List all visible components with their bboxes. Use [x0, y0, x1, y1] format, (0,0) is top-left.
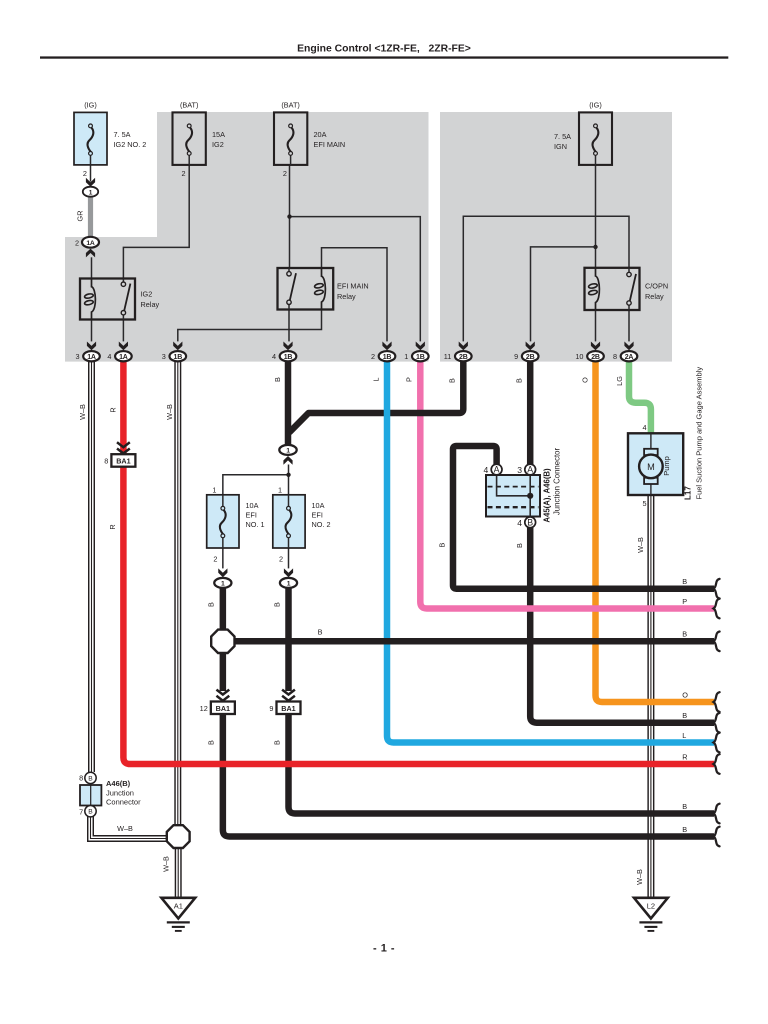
svg-text:O: O	[682, 690, 688, 699]
svg-text:(BAT): (BAT)	[281, 101, 300, 110]
wire W-B octagon to ground A1	[175, 847, 182, 897]
svg-text:2: 2	[182, 169, 186, 178]
bus exit B at y=836.5	[714, 827, 720, 847]
fuse 15A IG2	[173, 112, 206, 164]
svg-text:BA1: BA1	[216, 704, 230, 713]
wire O from 10 2B to right exit	[596, 361, 715, 702]
svg-text:W–B: W–B	[78, 404, 87, 420]
svg-text:(BAT): (BAT)	[180, 101, 199, 110]
terminal 4 1B with arrow	[272, 342, 296, 362]
fuse 20A EFI MAIN	[274, 112, 307, 164]
svg-text:B: B	[88, 775, 93, 782]
svg-text:W–B: W–B	[635, 869, 644, 885]
svg-text:W–B: W–B	[117, 824, 133, 833]
svg-text:5: 5	[643, 499, 647, 508]
svg-text:B: B	[682, 711, 687, 720]
connector 1 below EFI NO.2	[280, 578, 297, 588]
svg-text:Connector: Connector	[106, 798, 141, 807]
svg-text:1: 1	[278, 486, 282, 495]
wire fuse IG2 NO.2 to connector 1	[90, 165, 92, 182]
wire IG2 relay switch to terminal 4 1A	[122, 320, 124, 342]
svg-text:IG2: IG2	[141, 290, 153, 299]
svg-text:B: B	[682, 630, 687, 639]
wire C/OPN relay coil to terminal 10 2B	[595, 310, 597, 341]
svg-text:B: B	[438, 542, 447, 547]
bus exit R at y=764	[714, 754, 720, 774]
svg-text:4: 4	[643, 423, 647, 432]
svg-text:C/OPN: C/OPN	[645, 282, 668, 291]
connector 1 ellipse	[83, 187, 98, 197]
svg-text:1: 1	[404, 352, 408, 361]
svg-text:GR: GR	[76, 211, 85, 222]
svg-text:BA1: BA1	[281, 704, 295, 713]
wire C/OPN switch feed to terminal 11 2B	[463, 216, 629, 341]
wire W-B from 3 1A	[88, 361, 95, 772]
svg-text:2: 2	[75, 238, 79, 247]
svg-text:B: B	[515, 543, 524, 548]
terminal 8 2A with arrow	[613, 342, 637, 362]
arrow out of 1A	[86, 249, 95, 258]
svg-text:R: R	[108, 524, 117, 529]
svg-text:1A: 1A	[87, 354, 96, 361]
svg-text:IG2: IG2	[212, 140, 224, 149]
terminal 4 1A with arrow	[107, 342, 131, 362]
wire W-B pump to ground L2	[647, 495, 654, 898]
svg-text:7: 7	[79, 807, 83, 816]
wire fuse IGN to C/OPN relay coil	[595, 165, 597, 268]
wire 1A to IG2 relay coil	[91, 257, 93, 278]
terminal 3 1A with arrow	[75, 342, 99, 362]
wire GR fuse to 1A connector	[88, 196, 93, 238]
A46 pin 8 B	[85, 772, 96, 783]
svg-text:20A: 20A	[314, 130, 327, 139]
wire node to terminal 9 2B	[531, 247, 596, 342]
svg-text:15A: 15A	[212, 130, 225, 139]
svg-text:EFI MAIN: EFI MAIN	[337, 282, 369, 291]
svg-text:Fuel Suction Pump and Gage Ass: Fuel Suction Pump and Gage Assembly	[695, 367, 704, 500]
svg-text:4: 4	[107, 352, 111, 361]
svg-text:Junction Connector: Junction Connector	[553, 448, 562, 516]
svg-text:A1: A1	[174, 901, 183, 910]
svg-text:Pump: Pump	[662, 456, 671, 476]
node on EFI MAIN feed	[287, 214, 291, 218]
svg-text:8: 8	[104, 457, 108, 466]
svg-text:A45(A), A46(B): A45(A), A46(B)	[543, 468, 552, 523]
wire EFI relay switch to terminal 4 1B	[288, 310, 290, 342]
wire W-B from 3 1B	[174, 361, 181, 826]
svg-text:A: A	[527, 465, 533, 475]
gray block left (ECU area)	[65, 112, 429, 362]
svg-text:9: 9	[269, 704, 273, 713]
bus exit O at y=702	[714, 692, 720, 712]
junction connector A45(A) A46(B) box	[486, 475, 540, 517]
svg-text:W–B: W–B	[162, 856, 171, 872]
header rule	[40, 56, 728, 58]
svg-text:- 1 -: - 1 -	[373, 943, 395, 955]
svg-text:IG2 NO. 2: IG2 NO. 2	[114, 140, 147, 149]
wire junction 4A to node	[497, 475, 531, 496]
svg-text:L: L	[682, 731, 686, 740]
wire B from junction 4B to right exit	[530, 528, 714, 723]
arrow out of connector 1 on 4 1B wire	[283, 456, 292, 465]
junction pin 3 A	[525, 464, 536, 475]
svg-text:A46(B): A46(B)	[106, 779, 131, 788]
terminal 2 1B with arrow	[371, 342, 395, 362]
svg-text:Relay: Relay	[645, 292, 664, 301]
connector 8 BA1	[117, 442, 130, 447]
svg-text:8: 8	[79, 774, 83, 783]
svg-text:B: B	[207, 740, 216, 745]
svg-text:1B: 1B	[174, 354, 183, 361]
svg-text:7. 5A: 7. 5A	[114, 130, 131, 139]
svg-text:M: M	[647, 462, 655, 472]
svg-text:R: R	[109, 407, 118, 412]
svg-text:7. 5A: 7. 5A	[554, 132, 571, 141]
svg-text:B: B	[272, 602, 281, 607]
svg-text:10A: 10A	[246, 501, 259, 510]
wire B octagon bus to right exit	[234, 638, 715, 645]
svg-text:4: 4	[517, 518, 522, 528]
bus exit B at y=813.5	[714, 804, 720, 824]
fuse 7.5A IG2 NO.2	[74, 112, 107, 164]
motor M symbol	[644, 449, 658, 455]
svg-text:4: 4	[272, 352, 276, 361]
terminal 10 2B with arrow	[575, 342, 603, 362]
svg-text:LG: LG	[615, 376, 624, 386]
junction pin 4 A	[491, 464, 502, 475]
connector 1 on 4 1B wire	[279, 445, 296, 455]
svg-text:1B: 1B	[284, 354, 293, 361]
svg-text:B: B	[273, 377, 282, 382]
svg-text:R: R	[682, 752, 687, 761]
svg-text:EFI: EFI	[246, 511, 257, 520]
svg-text:2A: 2A	[625, 354, 634, 361]
svg-text:BA1: BA1	[116, 457, 130, 466]
arrow into connector 1 below EFI NO.2	[284, 568, 293, 577]
svg-text:P: P	[405, 377, 414, 382]
wire B from EFI NO.2 fuse to BA1 and right exit	[289, 589, 715, 814]
wire C/OPN relay switch to terminal 8 2A	[628, 310, 630, 341]
gray block right	[440, 112, 672, 362]
dashed bus line lower	[488, 506, 539, 508]
terminal 9 2B with arrow	[514, 342, 538, 362]
wire R from 4 1A to right exit	[123, 361, 714, 764]
wire P from 1 1B to right exit	[420, 361, 714, 609]
svg-text:B: B	[515, 378, 524, 383]
relay EFI MAIN coil	[322, 268, 326, 310]
relay IG2 switch	[122, 279, 124, 283]
wire B from 9 2B to junction 3A	[527, 361, 534, 464]
node in junction connector	[527, 493, 533, 499]
svg-text:IGN: IGN	[554, 142, 567, 151]
junction pin 4 B	[525, 517, 536, 528]
wire from connector 1 to EFI fuses node	[223, 465, 289, 495]
wire IG2 relay coil to terminal 3 1A	[91, 320, 93, 342]
wire B link 4 1B to 11 2B	[289, 361, 463, 433]
A46 pin 7 B	[85, 806, 96, 817]
bus exit P at y=608.5	[714, 599, 720, 619]
svg-text:L: L	[372, 377, 381, 381]
wire through junction 3A-4B	[529, 475, 531, 517]
svg-text:1: 1	[221, 581, 225, 588]
connector 1 below EFI NO.1	[214, 578, 231, 588]
svg-text:EFI MAIN: EFI MAIN	[314, 140, 346, 149]
svg-text:B: B	[88, 809, 93, 816]
ground A1	[161, 898, 195, 919]
svg-text:8: 8	[613, 352, 617, 361]
svg-text:B: B	[682, 802, 687, 811]
wire LG from 8 2A to pump	[629, 361, 651, 433]
svg-text:1A: 1A	[86, 240, 95, 247]
wire EFI NO.2 fuse out	[288, 548, 290, 568]
terminal 11 2B with arrow	[444, 342, 472, 362]
svg-text:NO. 2: NO. 2	[312, 520, 331, 529]
svg-text:B: B	[207, 602, 216, 607]
svg-text:1: 1	[212, 486, 216, 495]
svg-text:9: 9	[514, 352, 518, 361]
svg-text:2: 2	[283, 169, 287, 178]
svg-text:W–B: W–B	[165, 404, 174, 420]
terminal 3 1B with arrow	[162, 342, 186, 362]
svg-text:1B: 1B	[416, 354, 425, 361]
svg-text:Junction: Junction	[106, 789, 134, 798]
relay IG2 coil	[92, 279, 96, 320]
svg-text:2B: 2B	[526, 354, 535, 361]
svg-text:B: B	[682, 577, 687, 586]
relay C/OPN coil	[596, 268, 600, 310]
svg-text:3: 3	[162, 352, 166, 361]
bus exit L at y=742.5	[714, 733, 720, 753]
svg-text:EFI: EFI	[312, 511, 323, 520]
dashed bus line upper	[488, 486, 539, 488]
svg-text:1A: 1A	[119, 354, 128, 361]
relay EFI MAIN switch	[288, 268, 290, 272]
svg-text:B: B	[527, 518, 533, 528]
svg-text:11: 11	[444, 352, 452, 361]
wire node to terminal 1 1B	[290, 217, 421, 342]
svg-text:10: 10	[575, 352, 583, 361]
svg-text:12: 12	[200, 704, 208, 713]
wire fuse EFI MAIN to EFI relay	[289, 165, 291, 268]
wire B from EFI NO.1 fuse to BA1 and right exit	[223, 589, 714, 837]
wire B junction 4A to right exit	[453, 446, 714, 589]
relay C/OPN box	[585, 268, 640, 310]
svg-text:1: 1	[89, 189, 93, 196]
svg-text:L17: L17	[683, 486, 692, 500]
wire fuse IG2 15A to IG2 relay switch	[123, 165, 189, 279]
relay IG2 box	[80, 279, 135, 320]
svg-text:2: 2	[83, 169, 87, 178]
svg-text:1B: 1B	[383, 354, 392, 361]
fuse 10A EFI NO.2	[273, 495, 305, 548]
svg-text:Relay: Relay	[337, 292, 356, 301]
arrow into connector 1	[86, 178, 95, 187]
node EFI fuse feed	[286, 473, 290, 477]
bus exit B at y=722.7	[714, 713, 720, 733]
svg-text:2B: 2B	[459, 354, 468, 361]
connector 12 BA1	[216, 690, 229, 695]
relay C/OPN switch	[628, 268, 630, 273]
svg-text:B: B	[448, 378, 457, 383]
svg-text:O: O	[581, 377, 590, 383]
junction connector A46(B) box	[80, 785, 101, 806]
svg-text:B: B	[682, 825, 687, 834]
wire EFI NO.1 fuse out	[222, 548, 224, 568]
svg-text:NO. 1: NO. 1	[246, 520, 265, 529]
svg-text:4: 4	[484, 465, 489, 475]
fuse 7.5A IGN	[579, 112, 612, 164]
wire in pump box	[650, 433, 652, 495]
svg-text:3: 3	[75, 352, 79, 361]
svg-text:Engine Control <1ZR-FE, 2ZR-: Engine Control <1ZR-FE, 2ZR-FE>	[297, 44, 471, 55]
svg-text:(IG): (IG)	[84, 101, 97, 110]
wire B from 4 1B down	[285, 361, 292, 445]
relay EFI MAIN box	[278, 268, 334, 310]
ground L2	[634, 898, 668, 919]
svg-text:W–B: W–B	[636, 537, 645, 553]
svg-text:A: A	[494, 465, 500, 475]
svg-text:P: P	[682, 597, 687, 606]
svg-text:1: 1	[286, 448, 290, 455]
svg-text:L2: L2	[647, 901, 655, 910]
wire EFI relay coil to terminal 2 1B	[322, 248, 388, 342]
svg-text:Relay: Relay	[141, 300, 160, 309]
connector 2 1A ellipse	[82, 237, 99, 248]
terminal 1 1B with arrow	[404, 342, 428, 362]
fuse 10A EFI NO.1	[207, 495, 239, 548]
arrow into connector 1 below EFI NO.1	[218, 568, 227, 577]
octagon junction W-B	[167, 825, 190, 848]
svg-text:1: 1	[287, 581, 291, 588]
node on IGN feed	[593, 245, 597, 249]
svg-text:2: 2	[371, 352, 375, 361]
svg-text:2B: 2B	[591, 354, 600, 361]
svg-text:(IG): (IG)	[589, 101, 602, 110]
svg-text:B: B	[272, 740, 281, 745]
svg-text:B: B	[318, 628, 323, 637]
wire EFI relay coil to terminal 3 1B	[178, 310, 322, 342]
svg-text:3: 3	[517, 465, 522, 475]
bus exit B at y=588.7	[714, 579, 720, 599]
wire W-B A46(B) to octagon	[91, 816, 168, 839]
bus exit B at y=641.3	[714, 632, 720, 652]
svg-text:2: 2	[213, 555, 217, 564]
connector 9 BA1	[282, 690, 295, 695]
svg-text:2: 2	[279, 555, 283, 564]
wire L from 2 1B to right exit	[387, 361, 714, 743]
octagon junction B bus	[211, 630, 234, 653]
pump box	[628, 433, 683, 495]
svg-text:10A: 10A	[312, 501, 325, 510]
